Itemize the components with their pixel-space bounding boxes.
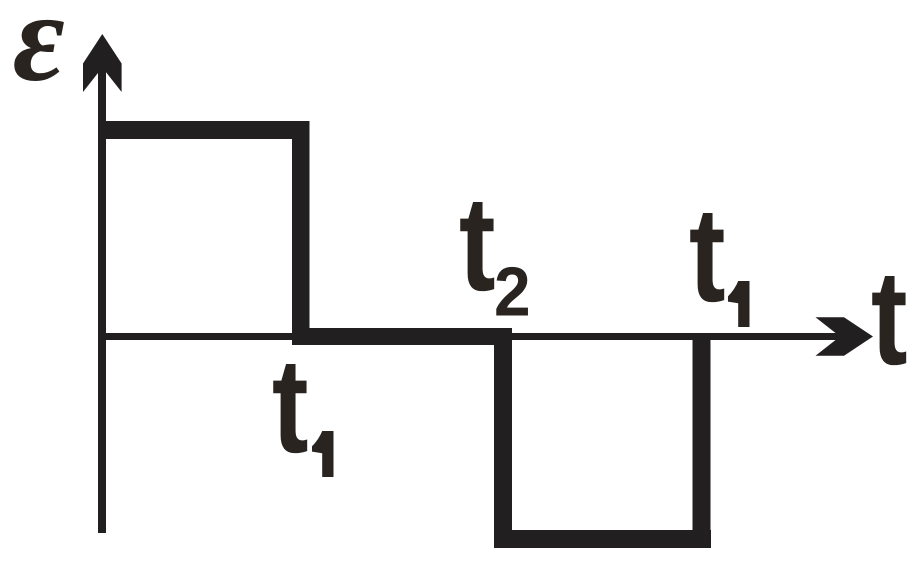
svg-text:2: 2 [494, 254, 531, 331]
label t2 above axis: t [459, 169, 496, 319]
label t1 (second period) above axis: t [689, 180, 726, 330]
label t1 below axis: subscript 1 [312, 431, 334, 477]
t axis arrowhead [816, 317, 874, 356]
waveform: falling edge at t1 [292, 121, 310, 345]
t axis label [871, 243, 908, 393]
waveform: positive pulse top segment [98, 121, 310, 139]
waveform: zero-level segment t1..t2 [292, 328, 512, 345]
svg-text:t: t [459, 169, 496, 319]
label t1 (second period): subscript 1 [728, 281, 750, 327]
waveform: rising edge at second t1 [693, 333, 711, 548]
svg-text:t: t [272, 331, 309, 481]
svg-text:ε: ε [13, 0, 65, 108]
waveform: negative pulse bottom segment [494, 530, 711, 548]
svg-text:t: t [689, 180, 726, 330]
epsilon axis arrowhead [83, 34, 122, 92]
epsilon (vertical) axis shaft [98, 48, 106, 533]
label t2 above axis: subscript 2 [494, 254, 531, 331]
label t1 below axis: t [272, 331, 309, 481]
waveform: falling edge at t2 [494, 328, 512, 548]
t (time) axis shaft [98, 333, 843, 340]
svg-text:t: t [871, 243, 908, 393]
